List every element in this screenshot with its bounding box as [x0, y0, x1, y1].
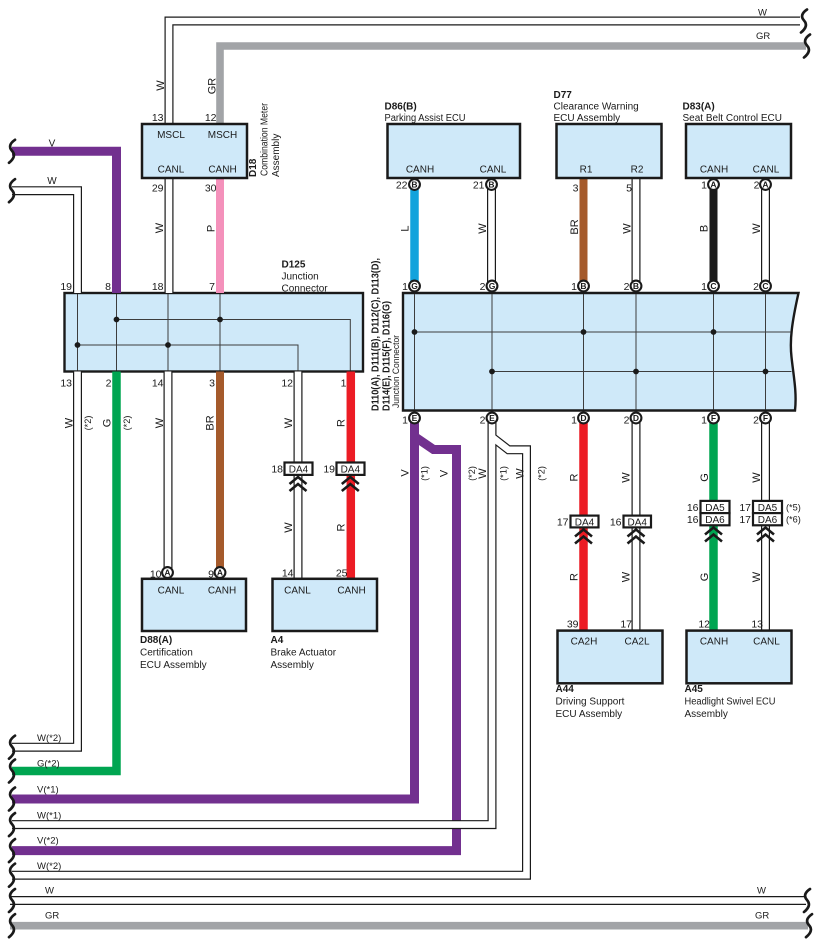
svg-text:DA6: DA6 [705, 515, 725, 526]
svg-text:2: 2 [754, 180, 760, 192]
svg-text:ECU Assembly: ECU Assembly [556, 709, 623, 720]
wire BR D125 pin 3 to D88 CANH [216, 372, 224, 573]
pin circle 1G of JC [409, 281, 420, 292]
svg-text:29: 29 [152, 183, 164, 195]
svg-text:W: W [751, 223, 763, 234]
svg-text:13: 13 [60, 378, 72, 390]
svg-text:CANL: CANL [753, 165, 780, 176]
svg-text:E: E [489, 413, 495, 423]
pin circle 2E of JC [487, 413, 498, 424]
pin circle 9A of D88 [215, 567, 226, 578]
pin circle 1B of JC [578, 281, 589, 292]
svg-text:W: W [751, 571, 763, 582]
svg-text:Assembly: Assembly [271, 660, 314, 671]
svg-text:14: 14 [152, 378, 164, 390]
svg-text:CANH: CANH [337, 586, 365, 597]
svg-text:V: V [439, 469, 451, 477]
svg-text:D77: D77 [554, 90, 573, 101]
svg-text:DA5: DA5 [705, 503, 725, 514]
chevrons under DA6 left [705, 528, 722, 542]
wire G green D125 pin 2 to G(*2) [12, 372, 117, 772]
break symbol GR bottom right [806, 914, 812, 937]
svg-text:G: G [411, 281, 418, 291]
svg-text:13: 13 [751, 619, 763, 631]
svg-text:CANH: CANH [406, 165, 434, 176]
wire JC internal column B-D1 [583, 294, 585, 410]
pin circle 2B of JC [631, 281, 642, 292]
node JC bus2 col 2G [489, 369, 495, 375]
break symbol V(*1) [9, 788, 15, 811]
svg-text:(*6): (*6) [786, 515, 801, 525]
svg-text:CANH: CANH [700, 165, 728, 176]
svg-text:V: V [49, 139, 56, 150]
svg-text:GR: GR [756, 31, 770, 42]
svg-text:1: 1 [701, 180, 707, 192]
svg-text:A: A [164, 568, 170, 578]
wire V branch to V(*2) [12, 437, 457, 851]
break symbol W bottom left [9, 889, 15, 912]
wire R red JC pin 1D to A44 CA2H [579, 418, 588, 631]
svg-text:(*2): (*2) [537, 466, 547, 481]
svg-text:W: W [283, 522, 295, 533]
svg-text:L: L [400, 225, 412, 231]
break symbol V(*2) [9, 839, 15, 862]
svg-text:Driving Support: Driving Support [556, 697, 625, 708]
svg-text:DA4: DA4 [575, 517, 595, 528]
svg-text:1: 1 [341, 378, 347, 390]
svg-text:3: 3 [209, 378, 215, 390]
svg-text:30: 30 [205, 183, 217, 195]
svg-text:CA2H: CA2H [571, 637, 598, 648]
svg-text:R: R [336, 419, 348, 427]
svg-text:(*5): (*5) [786, 503, 801, 513]
connector DA4 pin 19 box [337, 463, 365, 475]
svg-text:R2: R2 [631, 165, 644, 176]
svg-text:F: F [711, 413, 716, 423]
pin circle 21B of D86 [486, 179, 497, 190]
node D125 bus2 col19 [75, 342, 81, 348]
svg-text:V: V [400, 469, 412, 477]
ECU A45 Headlight Swivel ECU Assembly box [687, 631, 792, 684]
svg-text:18: 18 [271, 464, 283, 476]
break symbol W(*2) b [9, 864, 15, 887]
svg-text:Clearance Warning: Clearance Warning [554, 102, 639, 113]
svg-text:G: G [102, 419, 114, 428]
svg-text:Brake Actuator: Brake Actuator [271, 648, 337, 659]
svg-text:12: 12 [281, 378, 293, 390]
pin circle 2F of JC [760, 413, 771, 424]
svg-text:Junction: Junction [282, 272, 319, 283]
svg-text:W: W [621, 571, 633, 582]
ECU D88(A) Certification ECU Assembly box [142, 579, 246, 631]
svg-text:5: 5 [626, 183, 632, 195]
svg-text:W: W [47, 176, 57, 187]
wire D125 internal column 19-13 [77, 294, 79, 371]
svg-text:1: 1 [402, 281, 408, 293]
junction connector D110(A)-D116(G) [403, 293, 799, 411]
svg-text:ECU Assembly: ECU Assembly [554, 113, 621, 124]
svg-text:DA4: DA4 [627, 517, 647, 528]
svg-text:B: B [699, 225, 711, 232]
ECU D18 Combination Meter Assembly box [142, 124, 247, 178]
svg-text:(*2): (*2) [467, 466, 477, 481]
wire JC internal column B-D2 [635, 294, 637, 410]
svg-text:18: 18 [152, 281, 164, 293]
break symbol GR bottom left [9, 914, 15, 937]
svg-text:BR: BR [205, 415, 217, 430]
svg-text:D88(A): D88(A) [140, 635, 172, 646]
svg-text:G: G [489, 281, 496, 291]
pin circle 1C of JC [708, 281, 719, 292]
svg-text:A: A [217, 568, 223, 578]
svg-text:V(*1): V(*1) [37, 785, 59, 796]
wire JC internal bus CANL [492, 371, 792, 373]
svg-text:D110(A), D111(B), D112(C), D11: D110(A), D111(B), D112(C), D113(D), [371, 258, 382, 411]
svg-text:2: 2 [106, 378, 112, 390]
pin circle 1E of JC [409, 413, 420, 424]
svg-text:G(*2): G(*2) [37, 759, 60, 770]
svg-text:16: 16 [687, 502, 699, 514]
wire G green JC pin 1F to A45 CANH [709, 418, 718, 631]
svg-text:W(*2): W(*2) [37, 733, 61, 744]
ECU D83(A) Seat Belt Control ECU box [686, 124, 791, 178]
ECU D86(B) Parking Assist ECU box [388, 124, 521, 178]
svg-text:W: W [751, 472, 763, 483]
svg-text:14: 14 [282, 568, 294, 580]
svg-text:3: 3 [573, 183, 579, 195]
node JC bus1 col 1G [412, 329, 418, 335]
wire JC internal column C-F2 [765, 294, 767, 410]
wire D125 internal bus CANH [117, 320, 351, 371]
svg-text:D83(A): D83(A) [683, 102, 715, 113]
svg-text:D125: D125 [282, 260, 306, 271]
chevrons under DA4 17 [575, 530, 592, 544]
svg-text:DA5: DA5 [758, 503, 778, 514]
svg-text:D: D [580, 413, 586, 423]
svg-text:Assembly: Assembly [685, 709, 728, 720]
svg-text:2: 2 [624, 415, 630, 427]
svg-text:Combination Meter: Combination Meter [260, 102, 271, 176]
svg-text:2: 2 [753, 281, 759, 293]
svg-text:A: A [762, 180, 768, 190]
wire R red D125 pin 1 to A4 CANH [347, 372, 356, 579]
svg-text:1: 1 [701, 415, 707, 427]
wire JC internal column C-F1 [713, 294, 715, 410]
wire GR bottom full width [10, 922, 808, 930]
svg-text:17: 17 [620, 619, 632, 631]
svg-text:7: 7 [209, 281, 215, 293]
svg-text:10: 10 [150, 569, 162, 581]
pin circle 2A of D83 [760, 179, 771, 190]
svg-text:DA4: DA4 [341, 465, 361, 476]
wire JC internal column G-E1 [414, 294, 416, 410]
svg-text:W: W [477, 223, 489, 234]
svg-text:W(*1): W(*1) [37, 811, 61, 822]
wire JC internal column G-E2 [491, 294, 493, 410]
svg-text:GR: GR [45, 911, 59, 922]
ECU D77 Clearance Warning ECU Assembly box [557, 124, 662, 178]
svg-text:A: A [710, 180, 716, 190]
svg-text:CANL: CANL [284, 586, 311, 597]
svg-text:Connector: Connector [282, 284, 329, 295]
svg-text:Junction Connector: Junction Connector [391, 335, 401, 408]
svg-text:W: W [758, 8, 767, 19]
svg-text:(*2): (*2) [122, 416, 132, 431]
node JC bus2 col 2B [633, 369, 639, 375]
ECU A4 Brake Actuator Assembly box [273, 579, 378, 631]
pin circle 10A of D88 [162, 567, 173, 578]
svg-text:P: P [206, 225, 218, 232]
connector DA4 pin 17 box [571, 516, 599, 528]
svg-text:Headlight Swivel ECU: Headlight Swivel ECU [685, 697, 776, 708]
svg-text:W: W [621, 472, 633, 483]
svg-text:CANH: CANH [700, 637, 728, 648]
svg-text:8: 8 [105, 281, 111, 293]
svg-text:W: W [477, 468, 489, 479]
svg-text:22: 22 [396, 180, 408, 192]
svg-text:B: B [580, 281, 586, 291]
break symbol W left top [9, 179, 15, 202]
svg-text:Seat Belt Control ECU: Seat Belt Control ECU [683, 113, 783, 124]
svg-text:16: 16 [610, 516, 622, 528]
svg-text:E: E [412, 413, 418, 423]
svg-text:C: C [762, 281, 768, 291]
svg-text:CANL: CANL [158, 586, 185, 597]
svg-text:B: B [488, 180, 494, 190]
node JC bus1 col 1C [711, 329, 717, 335]
break symbol W(*1) [9, 813, 15, 836]
pin circle 1D of JC [578, 413, 589, 424]
svg-text:CA2L: CA2L [624, 637, 649, 648]
break symbol G(*2) [9, 760, 15, 783]
svg-text:2: 2 [753, 415, 759, 427]
wire V violet from left to D125 pin 8 [12, 151, 117, 293]
svg-text:GR: GR [207, 78, 219, 95]
chevrons under DA6 right [757, 528, 774, 542]
svg-text:ECU Assembly: ECU Assembly [140, 660, 207, 671]
node D125 bus2 col18 [165, 342, 171, 348]
svg-text:Certification: Certification [140, 648, 193, 659]
svg-text:G: G [699, 573, 711, 582]
chevrons under DA4 16 [628, 530, 645, 544]
svg-text:W: W [154, 417, 166, 428]
svg-text:DA6: DA6 [758, 515, 778, 526]
connector DA6 pin 17 box [753, 513, 782, 525]
ECU A44 Driving Support ECU Assembly box [558, 631, 663, 684]
svg-text:1: 1 [571, 281, 577, 293]
node JC bus1 col 1B [581, 329, 587, 335]
svg-text:W: W [64, 417, 76, 428]
svg-text:17: 17 [739, 502, 751, 514]
svg-text:W: W [515, 468, 527, 479]
chevrons under DA4 19 [342, 477, 359, 491]
svg-text:17: 17 [739, 514, 751, 526]
wire GR from D18 pin 12 to top right [220, 46, 806, 124]
node JC bus2 col 2C [763, 369, 769, 375]
break symbol GR top right [804, 35, 810, 58]
wire D125 internal column 7-3 [219, 294, 221, 371]
svg-text:39: 39 [567, 619, 579, 631]
node D125 bus1 col8 [114, 317, 120, 323]
svg-text:1: 1 [701, 281, 707, 293]
svg-text:R1: R1 [580, 165, 593, 176]
wire V from JC pin 1E splitting to V(*1) [12, 418, 415, 799]
svg-text:F: F [763, 413, 768, 423]
svg-text:GR: GR [755, 911, 769, 922]
svg-text:W(*2): W(*2) [37, 861, 61, 872]
svg-text:W: W [45, 886, 54, 897]
wire BR D77 R1 to JC pin 1B [580, 178, 588, 286]
svg-text:DA4: DA4 [289, 465, 309, 476]
svg-text:(*2): (*2) [83, 416, 93, 431]
svg-text:MSCH: MSCH [208, 130, 237, 141]
svg-text:Parking Assist ECU: Parking Assist ECU [385, 113, 466, 124]
svg-text:2: 2 [480, 415, 486, 427]
connector DA4 pin 16 box [624, 516, 652, 528]
connector DA4 pin 18 box [285, 463, 313, 475]
svg-text:19: 19 [323, 464, 335, 476]
svg-text:19: 19 [60, 281, 72, 293]
svg-text:W: W [757, 886, 766, 897]
svg-text:21: 21 [473, 180, 485, 192]
svg-text:CANL: CANL [753, 637, 780, 648]
svg-text:R: R [336, 523, 348, 531]
svg-text:A45: A45 [685, 684, 704, 695]
svg-text:B: B [633, 281, 639, 291]
svg-text:D18: D18 [248, 158, 259, 177]
svg-text:2: 2 [480, 281, 486, 293]
svg-text:W: W [283, 417, 295, 428]
break symbol W bottom right [804, 889, 810, 912]
svg-text:W: W [154, 222, 166, 233]
svg-text:D86(B): D86(B) [385, 102, 417, 113]
svg-text:CANL: CANL [480, 165, 507, 176]
svg-text:W: W [622, 223, 634, 234]
wire D125 internal column 18-14 [167, 294, 169, 371]
svg-text:(*1): (*1) [499, 466, 509, 481]
pin circle 2G of JC [487, 281, 498, 292]
svg-text:B: B [411, 180, 417, 190]
svg-text:R: R [569, 473, 581, 481]
svg-text:17: 17 [557, 516, 569, 528]
svg-text:CANL: CANL [158, 165, 185, 176]
svg-text:1: 1 [571, 415, 577, 427]
svg-text:V(*2): V(*2) [37, 836, 59, 847]
svg-text:CANH: CANH [208, 586, 236, 597]
svg-text:16: 16 [687, 514, 699, 526]
pin circle 22B of D86 [409, 179, 420, 190]
svg-text:13: 13 [152, 112, 164, 124]
node D125 bus1 col7 [217, 317, 223, 323]
pin circle 1F of JC [708, 413, 719, 424]
wire D125 internal bus CANL [78, 345, 299, 371]
svg-text:CANH: CANH [208, 165, 236, 176]
svg-text:D: D [633, 413, 639, 423]
svg-text:BR: BR [569, 219, 581, 234]
svg-text:12: 12 [698, 619, 710, 631]
pin circle 2D of JC [631, 413, 642, 424]
svg-text:25: 25 [336, 568, 348, 580]
svg-text:Assembly: Assembly [271, 134, 282, 177]
svg-text:C: C [710, 281, 716, 291]
wire D125 internal column 8-2 [116, 294, 118, 371]
svg-text:R: R [569, 573, 581, 581]
chevrons under DA4 18 [290, 477, 307, 491]
svg-text:9: 9 [208, 569, 214, 581]
connector DA6 pin 16 box [701, 513, 730, 525]
break symbol W top right [801, 10, 807, 33]
junction connector D125 [65, 293, 364, 372]
svg-text:1: 1 [402, 415, 408, 427]
wire B black D83 CANH to JC pin 1C [710, 185, 718, 287]
connector DA5 pin 17 box [753, 501, 782, 513]
svg-text:A4: A4 [271, 635, 284, 646]
wire L blue D86 CANH to JC pin 1G [410, 185, 419, 287]
connector DA5 pin 16 box [701, 501, 730, 513]
svg-text:MSCL: MSCL [157, 130, 185, 141]
pin circle 2C of JC [760, 281, 771, 292]
svg-text:(*1): (*1) [420, 466, 430, 481]
wire JC internal bus CANH [415, 331, 792, 333]
svg-text:W: W [155, 80, 167, 91]
svg-text:A44: A44 [556, 684, 575, 695]
svg-text:12: 12 [205, 112, 217, 124]
svg-text:G: G [699, 473, 711, 482]
break symbol W(*2) a [9, 736, 15, 759]
pin circle 1A of D83 [708, 179, 719, 190]
wire P pink D18 pin 30 to D125 pin 7 [216, 178, 224, 293]
break symbol V left [9, 140, 15, 163]
svg-text:2: 2 [624, 281, 630, 293]
